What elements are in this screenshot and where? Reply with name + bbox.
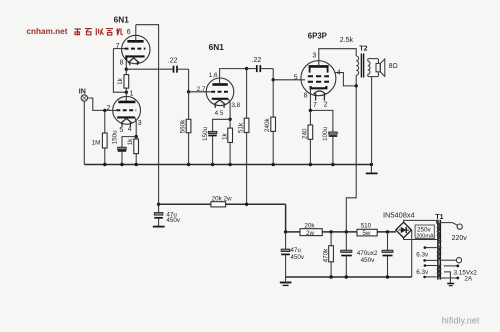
V3 beam plates <box>310 66 328 72</box>
svg-text:470k: 470k <box>322 248 329 263</box>
V3 plate lead to transformer <box>319 49 357 67</box>
V2 plate bar <box>212 83 227 86</box>
svg-text:1k: 1k <box>117 77 124 85</box>
svg-text:IN5408x4: IN5408x4 <box>383 211 415 220</box>
ground symbol bottom left <box>285 277 287 281</box>
transformer T2 core <box>361 54 363 78</box>
wire to capacitor 150u <box>122 137 136 147</box>
node cathode junction V1 lower <box>135 135 138 138</box>
svg-text:8: 8 <box>304 93 308 100</box>
svg-text:150u: 150u <box>202 126 209 141</box>
transformer T1 core <box>438 220 440 280</box>
svg-text:6: 6 <box>127 29 131 36</box>
svg-text:7: 7 <box>313 102 317 109</box>
capacitor 150u (cathode bypass 1) <box>118 147 127 149</box>
svg-text:1k: 1k <box>221 132 228 140</box>
wire plate to B+ drop <box>136 25 159 205</box>
wire bridge top to winding <box>404 220 437 223</box>
node cathode V3 <box>309 109 312 112</box>
wire rail corner down <box>285 204 287 232</box>
V1 lower heater <box>121 118 133 123</box>
svg-text:.22: .22 <box>168 57 178 64</box>
V2 grid lead <box>189 91 211 93</box>
node 47u2 <box>284 230 287 233</box>
svg-text:450v: 450v <box>361 257 376 264</box>
node 51k to rail <box>245 203 248 206</box>
svg-text:51k: 51k <box>238 122 245 133</box>
V1 lower heater legs <box>122 123 130 127</box>
svg-text:220v: 220v <box>452 235 468 242</box>
V1 lower cathode <box>117 116 135 118</box>
V2 heater <box>214 100 226 105</box>
svg-text:IN: IN <box>79 88 86 95</box>
svg-text:4 5: 4 5 <box>215 110 224 117</box>
svg-text:200mA: 200mA <box>416 234 434 240</box>
svg-text:T1: T1 <box>435 214 443 221</box>
V1 lower grid (dashed) <box>116 109 136 111</box>
V2 heater legs <box>215 104 224 108</box>
resistor 240 (cathode) <box>309 110 311 164</box>
V1 upper grid lead wire <box>113 48 125 50</box>
node bridge out <box>386 230 389 233</box>
svg-text:1k: 1k <box>127 138 134 146</box>
svg-text:510: 510 <box>361 223 372 230</box>
resistor 510 5w (boxed) <box>357 229 377 236</box>
V3 control grid (dashed) <box>308 81 329 83</box>
svg-text:1,6: 1,6 <box>209 72 218 79</box>
resistor 560k <box>188 92 190 165</box>
B+ rail <box>159 203 286 205</box>
svg-text:1M: 1M <box>92 140 101 147</box>
capacitor 470u #1 <box>345 232 347 250</box>
wire node to resistor 1k <box>125 69 127 92</box>
bottom bus <box>286 276 412 278</box>
node SRPP output <box>125 68 128 71</box>
V3 plate bar <box>309 65 329 68</box>
svg-text:hifidiy.net: hifidiy.net <box>442 316 480 326</box>
wire jack to grid <box>88 98 105 110</box>
svg-text:240k: 240k <box>264 117 271 132</box>
V3 screen grid (dashed) <box>308 75 329 77</box>
svg-text:450v: 450v <box>290 254 305 261</box>
tube V2 envelope <box>206 78 234 106</box>
resistor 1M <box>104 110 106 164</box>
resistor 20k 2w (boxed) <box>300 229 322 236</box>
capacitor 47u 450v (second) <box>285 232 287 249</box>
wire 220v bottom terminal <box>442 259 457 261</box>
ground bar under 47u <box>153 226 165 228</box>
V3 cathode <box>311 86 327 88</box>
V1 upper heater legs <box>130 62 138 65</box>
svg-text:2.5k: 2.5k <box>340 37 354 44</box>
resistor 1k (cathode 1) <box>135 137 137 165</box>
svg-text:6N1: 6N1 <box>114 15 130 25</box>
svg-text:6P3P: 6P3P <box>308 31 327 40</box>
svg-text:8Ω: 8Ω <box>389 63 398 70</box>
resistor 1k (cathode 2) <box>229 119 231 164</box>
wire jack to ground <box>83 101 85 164</box>
ground bus <box>84 164 371 166</box>
watermark chinese characters <box>75 28 123 35</box>
wire bus to bridge AC- <box>411 230 413 277</box>
capacitor .22 (coupling 2) <box>247 68 256 70</box>
B+ lower rail <box>286 231 396 233</box>
V3 heater <box>314 91 326 94</box>
input jack IN <box>81 95 87 101</box>
wire grid riser pin7 to pin1 <box>113 49 126 93</box>
wire cathode pin8 down <box>125 60 127 69</box>
resistor 51k (plate load) <box>246 69 248 205</box>
node pin1 plate junction <box>125 91 128 94</box>
wire bridge bottom to winding <box>404 238 437 240</box>
T1 winding 6.3v #2 <box>437 266 439 277</box>
svg-text:150u: 150u <box>111 130 118 145</box>
V3 heater leg pin2 <box>323 93 325 100</box>
svg-text:20k 2w: 20k 2w <box>212 195 232 202</box>
node grid tube2 <box>187 90 190 93</box>
tube V3 6P3P envelope <box>301 61 336 96</box>
V1 lower plate bar <box>118 101 135 104</box>
svg-text:6.3v: 6.3v <box>416 251 429 258</box>
box 250v 200mA <box>415 225 434 238</box>
svg-text:.22: .22 <box>252 57 262 64</box>
svg-text:3: 3 <box>312 53 316 60</box>
node riser/470u <box>345 230 348 233</box>
V1 lower cathode exit wire <box>135 117 136 136</box>
wire B+ riser <box>346 86 356 232</box>
T1 winding 220v <box>438 223 442 261</box>
V3 cathode lead <box>309 88 311 110</box>
node T2 primary bottom / B+ <box>355 84 358 87</box>
resistor 20k 2w <box>211 202 226 207</box>
svg-text:3: 3 <box>138 120 142 127</box>
resistor 1k (SRPP) <box>124 75 129 89</box>
svg-text:2w: 2w <box>306 230 315 237</box>
T1 winding 3.15Vx2 <box>439 264 442 278</box>
svg-text:5: 5 <box>294 75 298 82</box>
tube V1 lower triode envelope <box>113 96 141 124</box>
node grid 6P3P <box>272 78 275 81</box>
node 470k <box>329 230 332 233</box>
wire 3.15 top tap <box>444 265 458 267</box>
svg-text:5w: 5w <box>362 230 371 237</box>
wire grid node to pin5 <box>273 79 305 81</box>
svg-text:240: 240 <box>301 128 308 139</box>
svg-text:250v: 250v <box>417 227 432 234</box>
tube V1 upper triode envelope <box>122 35 150 63</box>
svg-text:6N1: 6N1 <box>209 42 225 52</box>
svg-text:cnham.net: cnham.net <box>27 27 68 36</box>
speaker 8 ohm <box>376 63 380 71</box>
V1 upper plate lead wire <box>135 25 137 42</box>
V1 lower grid lead wire <box>105 109 118 111</box>
bridge rectifier IN5408x4 <box>396 222 412 238</box>
node cathode V2 <box>228 118 231 121</box>
T1 winding 250v <box>437 224 440 240</box>
svg-text:T2: T2 <box>359 45 367 52</box>
transformer T2 primary winding <box>355 49 357 56</box>
svg-text:47u: 47u <box>290 247 301 254</box>
capacitor .22 (coupling 1) <box>126 68 172 70</box>
svg-text:5: 5 <box>119 127 123 134</box>
wire 3.15 bottom tap <box>442 277 458 279</box>
svg-text:6.3v: 6.3v <box>416 269 429 276</box>
node B+ rail left <box>157 203 160 206</box>
capacitor 47u 450v (first filter) <box>158 204 160 212</box>
capacitor 470u #2 <box>387 232 389 250</box>
V2 cathode <box>212 98 228 100</box>
svg-text:450v: 450v <box>166 217 181 224</box>
svg-text:20k: 20k <box>304 222 315 229</box>
svg-text:560k: 560k <box>180 119 187 134</box>
V2 cathode exit wire <box>228 99 230 120</box>
svg-text:8: 8 <box>120 60 124 67</box>
wire speaker to ground <box>371 77 373 165</box>
node grid / 1M <box>103 109 106 112</box>
capacitor 150u (cathode bypass 2) <box>213 119 231 131</box>
capacitor 100u (cathode bypass) <box>310 110 333 131</box>
svg-text:4: 4 <box>128 126 132 133</box>
resistor 240k (grid leak) <box>272 80 274 165</box>
resistor 470k (bleeder) <box>330 232 332 277</box>
wire plate lead lower triode <box>125 92 127 102</box>
wire 220v top terminal <box>442 223 458 226</box>
svg-text:2A: 2A <box>464 275 473 282</box>
V3 heater leg pin7 <box>315 93 317 100</box>
V1 upper cathode <box>126 56 144 59</box>
svg-text:3,8: 3,8 <box>231 102 240 109</box>
speaker connection loop <box>368 59 379 77</box>
svg-text:2: 2 <box>324 102 328 109</box>
T1 winding 6.3v #1 <box>437 248 440 261</box>
svg-text:100u: 100u <box>322 126 329 141</box>
wire 3.15 center tap to ground <box>444 272 450 283</box>
wire cap to grid node <box>188 69 190 92</box>
bus junction dots <box>103 163 106 166</box>
node plate V2 / 51k <box>245 67 248 70</box>
V1 upper heater <box>128 58 139 63</box>
V3 screen pin4 wire to B+ <box>335 73 357 86</box>
V2 grid (dashed) <box>211 91 229 93</box>
transformer T2 secondary winding <box>368 61 370 74</box>
ground symbol at bus end <box>370 165 372 173</box>
V2 plate lead wire <box>220 69 247 85</box>
wire cap2 to grid node <box>272 69 274 80</box>
V1 upper plate bar <box>127 40 143 43</box>
V1 upper grid (dashed) <box>125 48 146 50</box>
